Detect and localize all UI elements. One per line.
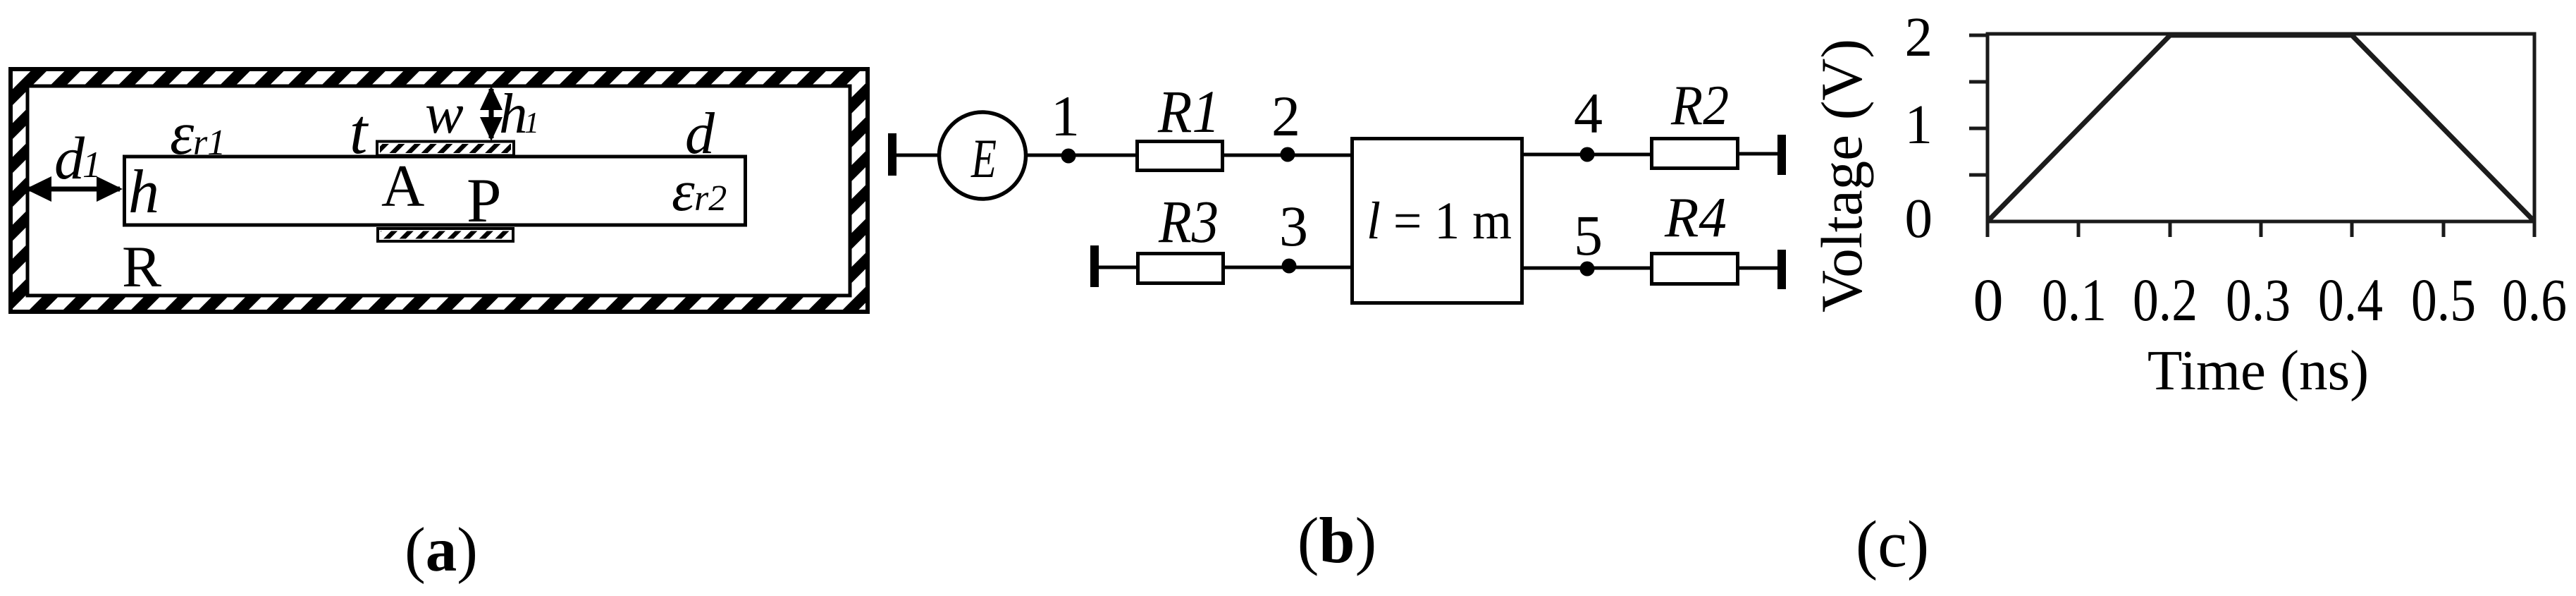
resistor R1	[1138, 142, 1223, 171]
terminal T-bar right top	[1777, 135, 1786, 175]
svg-text:2: 2	[1905, 7, 1933, 68]
svg-text:(a): (a)	[405, 516, 478, 585]
svg-text:0: 0	[1973, 266, 2004, 334]
svg-text:4: 4	[1574, 81, 1603, 145]
svg-text:0.3: 0.3	[2226, 266, 2291, 334]
dimension arrow d1	[25, 176, 123, 202]
substrate rectangle (h)	[125, 157, 746, 225]
wire R3 to line box via node 3	[1224, 266, 1353, 269]
x tick 0	[1986, 221, 1990, 237]
wire box to node 4 and R2	[1522, 153, 1652, 157]
wire source to node 1	[1025, 154, 1078, 157]
node 3	[1282, 259, 1297, 274]
y tick 1	[1969, 127, 1988, 130]
source E circle	[939, 112, 1026, 199]
svg-text:w: w	[425, 81, 464, 145]
terminal T-bar left of source	[888, 133, 896, 176]
x tick 0.1	[2077, 221, 2081, 237]
node 4	[1580, 147, 1595, 162]
x tick 0.2	[2169, 221, 2172, 237]
resistor R4	[1652, 254, 1738, 284]
plot frame	[1988, 34, 2534, 221]
svg-text:1: 1	[1051, 84, 1080, 148]
node 5	[1580, 262, 1595, 276]
svg-text:d: d	[54, 124, 85, 192]
node 1	[1061, 149, 1076, 164]
svg-text:(b): (b)	[1298, 504, 1376, 576]
bottom conductor strip	[378, 229, 513, 241]
terminal T-bar right bottom	[1777, 250, 1786, 289]
svg-text:r2: r2	[694, 178, 727, 219]
svg-text:ε: ε	[672, 158, 695, 223]
svg-text:0: 0	[1905, 188, 1933, 250]
resistor R2	[1652, 139, 1738, 169]
terminal T-bar left of R3	[1090, 245, 1099, 287]
resistor R3	[1138, 254, 1224, 284]
svg-text:ε: ε	[170, 99, 195, 167]
svg-text:t: t	[350, 96, 369, 167]
wire node 1 to R1	[1068, 154, 1138, 157]
x tick 0.4	[2350, 221, 2354, 237]
y tick 0.5	[1969, 174, 1988, 177]
svg-text:0.4: 0.4	[2318, 266, 2383, 334]
dimension arrow h1 (vertical)	[480, 86, 503, 141]
wire R4 to right terminal	[1737, 267, 1781, 270]
svg-text:R1: R1	[1157, 78, 1220, 145]
svg-text:2: 2	[1271, 84, 1300, 148]
svg-text:3: 3	[1279, 194, 1308, 258]
svg-text:h: h	[499, 82, 528, 145]
node 2	[1281, 147, 1295, 162]
svg-text:R: R	[122, 234, 161, 300]
svg-text:h: h	[128, 158, 159, 226]
svg-text:0.2: 0.2	[2133, 266, 2198, 334]
svg-text:0.5: 0.5	[2411, 266, 2476, 334]
svg-text:0.6: 0.6	[2502, 266, 2567, 334]
svg-text:R4: R4	[1664, 186, 1727, 249]
svg-text:P: P	[467, 166, 502, 236]
svg-text:R2: R2	[1670, 73, 1729, 137]
svg-text:0.1: 0.1	[2042, 266, 2107, 334]
svg-text:5: 5	[1574, 203, 1603, 267]
wire R1 to line box via node 2	[1224, 154, 1353, 157]
svg-text:1: 1	[1905, 95, 1933, 156]
y tick 2	[1969, 34, 1988, 37]
svg-text:1: 1	[82, 145, 101, 186]
svg-text:Voltage (V): Voltage (V)	[1809, 39, 1874, 312]
shield outer wall (hatched)	[11, 69, 868, 312]
x tick 0.6	[2533, 221, 2537, 237]
svg-text:Time (ns): Time (ns)	[2147, 339, 2369, 402]
wire terminal to R3	[1095, 266, 1139, 269]
wire R2 to right terminal	[1737, 152, 1781, 156]
svg-text:A: A	[381, 153, 424, 219]
svg-text:r1: r1	[193, 123, 226, 163]
x tick 0.3	[2260, 221, 2263, 237]
top conductor strip	[377, 142, 514, 156]
wire terminal to source E	[892, 154, 940, 157]
wire box to node 5 and R4	[1522, 267, 1652, 270]
svg-text:E: E	[970, 128, 997, 189]
svg-text:1: 1	[524, 107, 539, 140]
x tick 0.5	[2442, 221, 2446, 237]
svg-text:(c): (c)	[1856, 508, 1929, 581]
transmission line box l = 1 m	[1352, 139, 1522, 303]
svg-text:d: d	[685, 101, 715, 166]
trapezoidal waveform	[1988, 35, 2534, 221]
svg-text:R3: R3	[1158, 188, 1219, 255]
svg-text:l = 1 m: l = 1 m	[1367, 192, 1512, 250]
y tick 1.5	[1969, 80, 1988, 84]
